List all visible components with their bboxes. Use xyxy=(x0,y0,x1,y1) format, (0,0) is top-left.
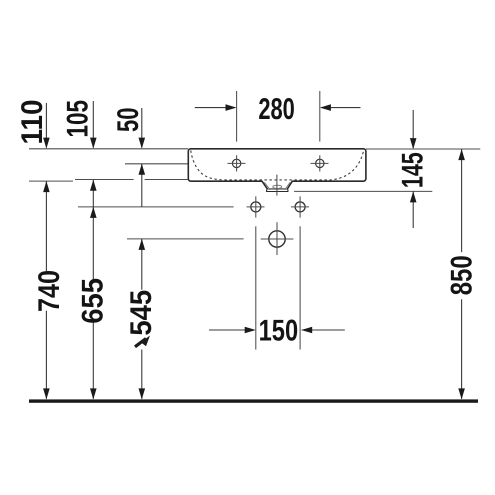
wire rim reference line left xyxy=(29,148,188,150)
mounting hole right cross xyxy=(291,196,309,217)
wire 110mm reference line xyxy=(29,180,73,182)
dimension 145 arrow up xyxy=(412,191,414,228)
dimension 150 right arrow xyxy=(302,329,345,331)
dimension 655 line xyxy=(92,323,94,399)
floor line xyxy=(29,399,478,402)
wire drain-bottom reference line right xyxy=(294,190,432,192)
wire mounting-hole reference line xyxy=(78,206,234,208)
drain flange xyxy=(267,190,288,192)
dimension 280 left arrow xyxy=(195,107,235,109)
siphon cross xyxy=(261,222,294,255)
wire rim reference line right xyxy=(366,148,480,150)
drain centerline xyxy=(276,175,278,196)
basin hidden rim dashed curve xyxy=(191,151,363,180)
svg-text:740: 740 xyxy=(33,270,66,312)
dimension 110 arrow down xyxy=(45,103,47,148)
faucet hole left cross xyxy=(228,155,246,171)
drain inner detail xyxy=(264,182,290,188)
dimension 850 line lower xyxy=(461,299,463,399)
svg-text:105: 105 xyxy=(61,100,94,138)
svg-text:280: 280 xyxy=(258,93,295,126)
dimension 280 extension line right xyxy=(319,91,321,142)
dimension 145 arrow down xyxy=(412,110,414,148)
dimension 740 line xyxy=(45,311,47,399)
dimension 280 extension line left xyxy=(236,91,238,142)
mounting hole left cross xyxy=(247,196,265,217)
svg-text:50: 50 xyxy=(112,108,145,133)
wire 105mm reference line xyxy=(75,179,188,181)
mounting hole right xyxy=(295,202,305,212)
dimension 545 lower line xyxy=(141,350,143,399)
dimension 105 arrow up xyxy=(92,180,94,279)
mounting hole left xyxy=(251,202,261,212)
svg-text:150: 150 xyxy=(259,314,299,347)
dimension 150 extension line left xyxy=(255,226,257,349)
drain inner ellipse xyxy=(273,185,282,188)
dimension 850 line upper xyxy=(461,149,463,252)
washbasin outline xyxy=(188,149,366,190)
dimension 105 arrow down xyxy=(92,101,94,148)
svg-text:145: 145 xyxy=(397,152,430,188)
dimension 150 left arrow xyxy=(209,329,254,331)
svg-text:655: 655 xyxy=(76,278,109,324)
dimension 150 extension line right xyxy=(299,226,301,349)
dimension 110 arrow up xyxy=(45,181,47,271)
wire siphon reference line xyxy=(127,238,244,240)
svg-text:110: 110 xyxy=(16,100,49,145)
siphon outlet circle xyxy=(269,231,285,247)
wire 50mm reference line xyxy=(125,163,188,165)
dimension 50 arrow up xyxy=(141,164,143,207)
svg-text:545: 545 xyxy=(125,290,158,336)
dimension 50 arrow down xyxy=(141,108,143,148)
faucet hole left xyxy=(232,159,240,167)
adjustable height diagonal arrow xyxy=(135,339,146,347)
svg-text:850: 850 xyxy=(446,255,479,295)
faucet hole right xyxy=(316,159,324,167)
dimension 280 right arrow xyxy=(321,107,360,109)
dimension 545 upper line xyxy=(141,239,143,290)
faucet hole right cross xyxy=(311,155,329,171)
